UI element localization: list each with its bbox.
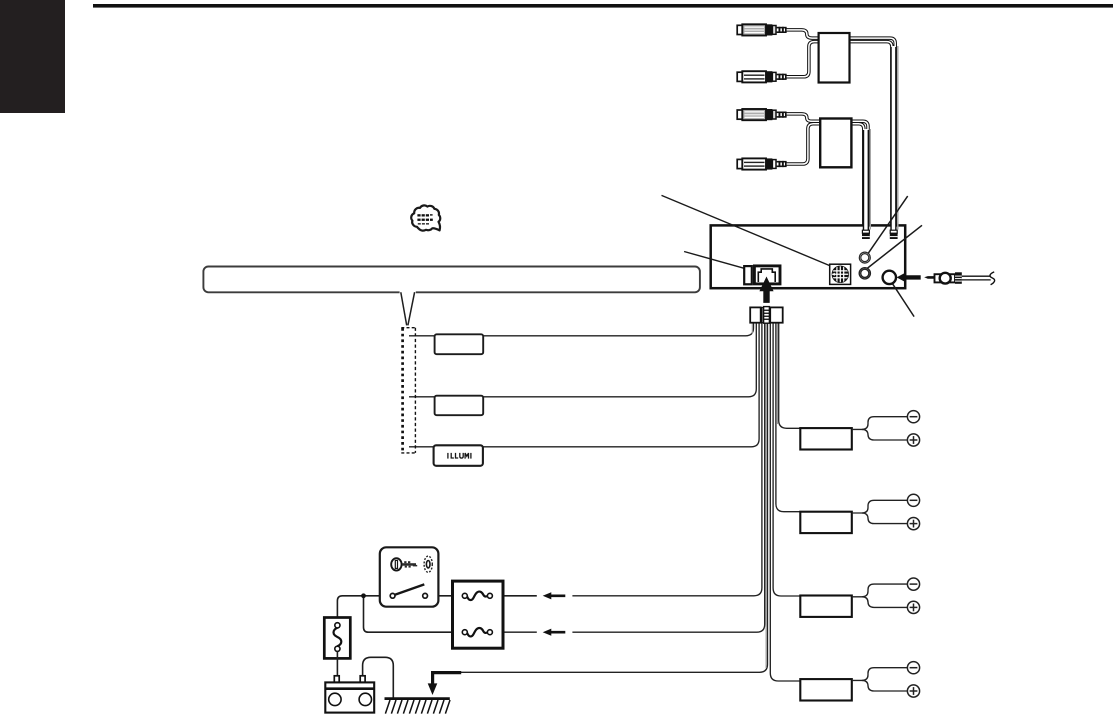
label box row1 (435, 334, 484, 354)
main fuse holder (324, 618, 350, 659)
battery (325, 676, 374, 713)
rca plug P3 (737, 109, 786, 120)
callout line to hole1 (868, 196, 908, 253)
cable plug tip pair2 (862, 230, 870, 239)
audio cable from plug P2 (786, 42, 892, 231)
antenna jack (883, 271, 896, 284)
audio cable from plug P4 (786, 124, 864, 231)
cable tip pair2 (over unit) (862, 230, 870, 239)
wire w-row1 (409, 323, 754, 336)
cable column pair2 (866, 129, 870, 231)
wire battery to ground (363, 657, 394, 698)
wire switch to fusebox (427, 595, 462, 597)
hole2 ring (859, 268, 870, 279)
antenna plug collar (940, 273, 951, 284)
audio cable from plug P1 (786, 30, 895, 231)
wire fuse to battery (336, 651, 338, 676)
antenna arrow (897, 273, 921, 281)
wire fusebox right f1 (492, 595, 537, 597)
speaker group 4 (800, 662, 919, 701)
wire w-ground (461, 323, 768, 673)
wire w-fuse2 (572, 323, 764, 633)
rca plug P1 (737, 24, 786, 35)
kenwood cloud logo (411, 205, 440, 230)
ground bent arrow (428, 671, 462, 695)
callout line from antenna jack (890, 279, 915, 316)
main unit rear panel (711, 225, 906, 288)
top rule (93, 4, 1113, 8)
wire w-spk2 (776, 323, 802, 512)
speaker group 3 (800, 578, 919, 617)
callout line to reset (684, 252, 744, 269)
ground symbol (385, 699, 451, 714)
rca plug P2 (737, 71, 786, 82)
cable ends over unit (866, 223, 898, 231)
wire switch to main fuse (337, 596, 390, 623)
faceplate strip (203, 267, 700, 326)
ignition key switch box (380, 547, 439, 606)
DIN socket (830, 264, 851, 284)
wire w-spk4 (770, 323, 802, 681)
power arrow 1 (543, 592, 566, 599)
page corner tab (0, 0, 65, 113)
speaker group 2 (800, 494, 919, 533)
cable tip pair1 (over unit) (890, 230, 898, 239)
cable plug tip pair1 (890, 230, 898, 239)
audio cable from plug P3 (786, 114, 868, 231)
wire w-row3 (409, 323, 759, 447)
reset slot (744, 266, 752, 284)
junction dot (361, 593, 366, 598)
dashed cable sleeve (401, 328, 415, 453)
fuse box (453, 581, 504, 648)
harness arrow into socket (759, 277, 773, 303)
antenna cable break squiggle (990, 272, 995, 285)
wire w-spk1 (779, 323, 803, 429)
label box ILLUMI (434, 445, 483, 466)
bundle gray shadows (752, 323, 777, 668)
antenna plug grip (955, 272, 962, 284)
speaker group 1 (800, 411, 919, 450)
cable column pair1 (893, 46, 897, 231)
wire junction to fuse2 (364, 596, 463, 632)
wire w-spk3 (773, 323, 802, 596)
label box row2 (435, 396, 484, 416)
adapter box B2 (820, 119, 851, 168)
adapter box B1 (819, 33, 850, 83)
hole1 ring (859, 252, 870, 263)
harness connector (750, 307, 783, 324)
antenna cable (962, 276, 991, 280)
callout line to hole2 (867, 225, 922, 268)
wiring socket (754, 266, 780, 284)
wire w-fuse1 (572, 323, 762, 596)
rca plug P4 (737, 158, 786, 169)
antenna plug body (935, 274, 956, 282)
callout line to DIN socket (662, 195, 832, 266)
antenna plug pin (924, 276, 934, 279)
wire fusebox right f2 (492, 631, 537, 633)
wire w-row2 (409, 323, 756, 397)
power arrow 2 (543, 629, 566, 636)
